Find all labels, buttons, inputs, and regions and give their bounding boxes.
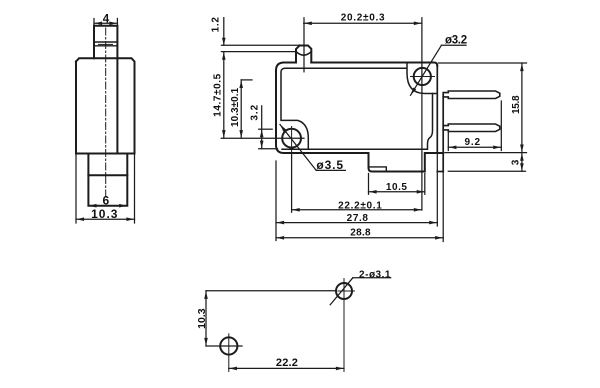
svg-text:28.8: 28.8 <box>350 228 371 239</box>
label ø3.5 with leader <box>280 125 316 171</box>
main body step inner notch <box>370 167 386 172</box>
bottom view dimension 10.3 <box>205 291 207 346</box>
svg-text:10.5: 10.5 <box>386 182 408 193</box>
svg-text:6: 6 <box>102 194 109 208</box>
svg-text:22.2±0.1: 22.2±0.1 <box>338 200 382 211</box>
svg-text:2-ø3.1: 2-ø3.1 <box>359 270 391 281</box>
svg-text:10.3±0.1: 10.3±0.1 <box>230 87 241 127</box>
dimension 10.3±0.1 <box>241 79 252 81</box>
dimension 20.2±0.3 <box>303 18 305 72</box>
dimension 28.8 <box>276 237 443 239</box>
side view dimension 6 <box>89 204 97 208</box>
side view dimension 10.3 <box>75 154 77 224</box>
side view plunger seam lines <box>94 41 117 43</box>
side view body inner vertical <box>116 58 118 153</box>
dimension 9.2 <box>447 133 449 151</box>
hole bottom-left <box>282 129 301 148</box>
side view centerline <box>105 28 107 196</box>
bottom view dimension 22.2 <box>229 367 344 369</box>
side view body <box>76 58 135 153</box>
dimension 10.5 <box>368 174 370 195</box>
svg-text:1.2: 1.2 <box>210 16 221 32</box>
main view button dome seam <box>296 52 311 56</box>
dimension 27.8 extension right <box>436 153 438 226</box>
dimension 14.7±0.5 <box>223 52 225 139</box>
side view lower section divider <box>88 174 127 176</box>
svg-text:ø3.2: ø3.2 <box>445 35 467 47</box>
dimension 3.2 <box>259 128 273 130</box>
svg-text:15.8: 15.8 <box>511 95 522 114</box>
svg-text:ø3.5: ø3.5 <box>316 158 344 172</box>
svg-text:10.3: 10.3 <box>196 308 208 329</box>
dimension 22.2±0.1 <box>291 155 293 212</box>
main body bottom step <box>369 153 444 172</box>
side view plunger <box>94 26 117 59</box>
dimension 27.8 <box>276 222 437 224</box>
mounting hole B <box>220 337 237 354</box>
main view button <box>296 46 311 63</box>
hole center line extension <box>221 137 304 139</box>
hole top-right <box>414 68 431 85</box>
dimension 27.8 extension left <box>275 161 277 241</box>
label 2-ø3.1 with leader <box>330 278 353 305</box>
dimension 28.8 extension right <box>442 172 444 242</box>
svg-text:20.2±0.3: 20.2±0.3 <box>341 13 385 24</box>
svg-text:3: 3 <box>510 159 521 165</box>
svg-text:10.3: 10.3 <box>91 207 118 221</box>
label ø3.2 with leader <box>411 45 442 95</box>
svg-text:9.2: 9.2 <box>465 137 481 148</box>
svg-text:14.7±0.5: 14.7±0.5 <box>213 73 224 117</box>
terminal strip right edge <box>442 94 444 172</box>
svg-text:22.2: 22.2 <box>276 357 298 369</box>
svg-text:4: 4 <box>103 13 110 25</box>
mounting hole A <box>336 283 352 299</box>
svg-text:27.8: 27.8 <box>347 213 369 224</box>
pin 1 terminal <box>443 91 500 99</box>
svg-text:3.2: 3.2 <box>250 104 261 121</box>
dimension 3 <box>448 170 525 172</box>
side view lower section <box>88 154 127 206</box>
main body outline <box>276 63 369 154</box>
bottom view reference lines <box>206 290 336 292</box>
pin 2 terminal <box>443 124 500 132</box>
side view plunger dimension 4 <box>93 19 95 25</box>
inner seam outline top <box>285 63 437 94</box>
dimension 15.8 <box>439 62 527 64</box>
inner seam outline left and hole boss <box>281 68 308 149</box>
inner seam outline bottom and right <box>282 94 433 150</box>
dimension 1.2 <box>221 44 299 46</box>
main body right edge <box>436 66 438 153</box>
terminal strip foot <box>437 171 443 173</box>
